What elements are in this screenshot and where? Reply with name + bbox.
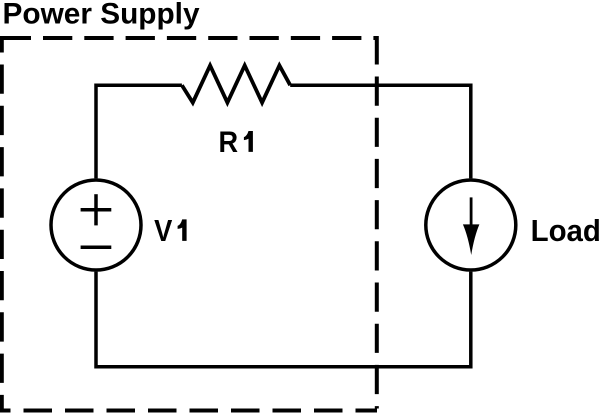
- svg-text:R: R: [219, 126, 239, 159]
- svg-text:Load: Load: [531, 214, 600, 248]
- svg-text:V: V: [154, 214, 173, 248]
- svg-text:Power Supply: Power Supply: [3, 0, 200, 31]
